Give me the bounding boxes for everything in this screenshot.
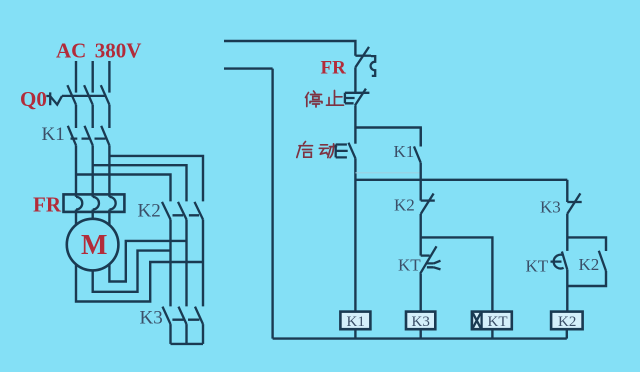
start button actuator — [336, 145, 348, 158]
contactor K2 pole 1 blade — [162, 202, 171, 220]
NO delayed contact KT blade — [562, 252, 567, 270]
svg-text:K1: K1 — [347, 314, 365, 330]
coil K2 box — [551, 312, 583, 330]
breaker Q0 handle — [46, 92, 62, 105]
wire L2 FR to motor — [91, 210, 93, 219]
wire faint branch bottom — [355, 172, 420, 174]
svg-text:Q0: Q0 — [20, 87, 47, 111]
thermal relay FR heater 2 — [93, 197, 99, 210]
wire KT NC to K3 coil — [420, 274, 422, 312]
wire L1 FR to motor — [75, 210, 77, 225]
contactor K3 pole 2 blade — [179, 307, 187, 325]
svg-text:K3: K3 — [140, 308, 163, 329]
thermal contact FR blade — [355, 47, 369, 67]
wire L3 FR to motor — [108, 210, 110, 226]
contactor K1 pole 2 blade — [85, 126, 93, 146]
NC delayed contact KT delay marks — [427, 261, 441, 270]
wire L3 Q0 to K1 — [108, 105, 110, 128]
wire tap L2 to K2 pole 2 — [93, 165, 187, 201]
coil K3 box — [406, 312, 435, 330]
NC contact K2 seat tick — [421, 199, 435, 201]
svg-text:K2: K2 — [394, 196, 415, 215]
wire K2 aux down to rejoin — [567, 271, 606, 286]
svg-text:K3: K3 — [412, 314, 430, 330]
NC contact K3 blade — [567, 193, 580, 213]
contactor K1 pole 1 blade — [68, 126, 76, 146]
contactor K3 linkage dashes — [172, 319, 199, 321]
NC contact K3 seat tick — [567, 201, 581, 203]
wire L1 Q0 to K1 — [75, 105, 77, 128]
svg-text:K3: K3 — [540, 198, 561, 217]
wire phase L2 top — [91, 61, 93, 93]
wire K3 NC down to split — [566, 214, 568, 251]
contactor K2 pole 2 blade — [178, 202, 187, 220]
wire bottom rail — [273, 337, 567, 339]
wire KT coil bottom stub — [491, 329, 493, 338]
wire K2 pole 2 down — [185, 220, 187, 307]
wire control supply bottom stub — [224, 67, 273, 69]
wire self-hold branch top — [355, 128, 420, 147]
svg-text:K1: K1 — [42, 124, 65, 145]
svg-text:K2: K2 — [138, 201, 161, 222]
coil KT box — [472, 312, 512, 330]
wire tap L3 to K2 pole 3 — [109, 156, 203, 202]
thermal relay FR heater 1 — [76, 197, 82, 210]
thermal relay FR box — [64, 194, 125, 212]
wire bus corner down to K3 NC — [566, 180, 568, 202]
wire motor bottom wrap to K2 pole 1 — [93, 251, 171, 292]
wire K3 coil bottom stub — [420, 329, 422, 338]
aux contact K2 blade — [599, 251, 606, 271]
aux contact K1 blade — [414, 146, 421, 162]
thermal contact FR element symbol — [371, 56, 376, 76]
wire L1 K1 to FR — [75, 145, 77, 197]
contactor K3 pole 3 blade — [195, 307, 203, 325]
wire K1 aux down through bus — [420, 163, 422, 201]
wire K2 coil bottom stub — [566, 329, 568, 338]
wire start down to K1 coil — [354, 158, 356, 311]
svg-text:FR: FR — [33, 193, 62, 217]
svg-text:FR: FR — [321, 58, 347, 79]
contactor K1 linkage dashes — [71, 137, 106, 139]
wire motor lower-left wrap to K2 pole 3 — [76, 262, 203, 302]
svg-text:K2: K2 — [579, 255, 600, 274]
wire L2 K1 to FR — [91, 145, 93, 197]
wire K2 NC to KT NC — [420, 214, 422, 256]
breaker Q0 pole 1 blade — [67, 85, 76, 105]
contactor K2 linkage dashes — [173, 214, 200, 216]
stop button blade — [355, 89, 366, 106]
wire KT NO to K2 coil — [566, 270, 568, 312]
svg-text:KT: KT — [398, 256, 421, 275]
NC delayed contact KT blade — [420, 246, 436, 273]
NC delayed contact KT seat tick — [421, 254, 430, 256]
svg-text:AC 380V: AC 380V — [56, 39, 141, 63]
wire left control rail — [271, 69, 273, 339]
wire K2 pole 3 down — [202, 220, 204, 307]
wire K2 pole 1 down — [169, 220, 171, 307]
wire K3 pole 2 down — [185, 324, 187, 344]
svg-text:K1: K1 — [394, 142, 415, 161]
svg-text:K2: K2 — [558, 314, 576, 330]
aux contact K1 wire top — [420, 128, 422, 147]
breaker Q0 pole 2 blade — [84, 85, 93, 105]
wire K3 star bar — [171, 343, 204, 345]
contactor K1 pole 3 blade — [101, 126, 109, 146]
wire K3 pole 1 down — [169, 324, 171, 344]
thermal contact FR seat tick — [355, 55, 371, 57]
stop button actuator — [345, 93, 370, 104]
wire tap L1 to K2 pole 1 — [76, 175, 171, 202]
stop button label 停止 — [306, 91, 344, 108]
wire control bus — [355, 179, 567, 181]
coil K1 box — [340, 312, 370, 330]
svg-text:KT: KT — [526, 257, 549, 276]
contactor K3 pole 1 blade — [163, 307, 171, 325]
start button blade — [349, 143, 356, 159]
contactor K2 pole 3 blade — [195, 202, 204, 220]
wire K1 coil bottom stub — [354, 329, 356, 338]
wire phase L3 top — [108, 61, 110, 93]
NO delayed contact KT delay arc — [551, 255, 564, 269]
wire motor lower-right wrap to K2 pole 2 — [109, 241, 186, 282]
breaker Q0 linkage bar — [62, 95, 107, 97]
thermal relay FR heater 3 — [109, 197, 115, 210]
svg-text:KT: KT — [488, 314, 508, 330]
breaker Q0 pole 3 blade — [101, 85, 110, 105]
wire control supply top stub — [224, 41, 355, 56]
wire FR to stop button — [354, 67, 356, 93]
svg-text:M: M — [81, 230, 107, 261]
wire phase L1 top — [75, 61, 77, 93]
motor M circle — [67, 219, 119, 271]
wire split branch to K2 aux — [567, 237, 606, 251]
NC contact K2 blade — [421, 194, 434, 215]
wire K3 pole 3 down — [202, 324, 204, 344]
wire stop to start — [354, 105, 356, 143]
wire L2 Q0 to K1 — [91, 105, 93, 128]
start button label 启动 — [297, 142, 337, 158]
wire L3 K1 to FR — [108, 145, 110, 197]
wire branch to KT coil — [421, 237, 493, 311]
